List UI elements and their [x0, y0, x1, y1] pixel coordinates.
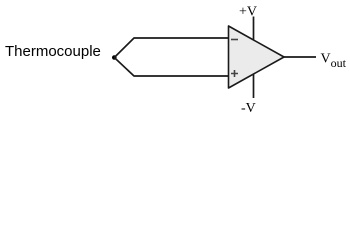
- svg-text:+V: +V: [239, 5, 257, 20]
- wire positive supply: [253, 17, 255, 41]
- wire negative supply: [253, 74, 255, 98]
- op-amp U1: [229, 26, 285, 88]
- svg-text:Thermocouple: Thermocouple: [5, 43, 101, 60]
- wire output: [284, 56, 316, 58]
- wire thermocouple lower lead to non-inverting input: [114, 58, 228, 77]
- pin inverting input minus: [231, 39, 238, 41]
- pin non-inverting input plus: [231, 70, 238, 77]
- svg-text:-V: -V: [241, 101, 256, 116]
- node thermocouple junction: [112, 55, 117, 60]
- svg-text:Vout: Vout: [321, 52, 347, 71]
- wire thermocouple upper lead to inverting input: [114, 38, 228, 58]
